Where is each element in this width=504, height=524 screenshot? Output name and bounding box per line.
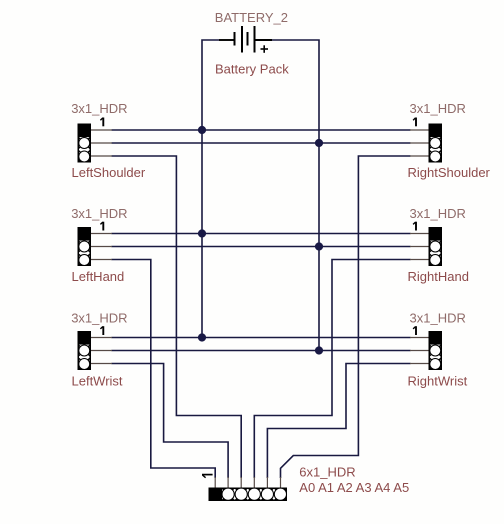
junction node: right rail to shoulder row2 — [315, 139, 323, 147]
svg-text:RightWrist: RightWrist — [408, 373, 468, 388]
connector LeftShoulder body — [78, 124, 92, 163]
pin 6 stub 6x1_HDR — [280, 477, 282, 488]
connector RightWrist body — [429, 331, 443, 370]
pin 2 stub LeftWrist — [91, 350, 112, 352]
pin 3 stub 6x1_HDR — [240, 477, 242, 488]
connector LeftWrist body — [78, 331, 92, 370]
wire hand row2 — [112, 246, 411, 248]
svg-text:3x1_HDR: 3x1_HDR — [410, 206, 466, 221]
wire hand row3 left to A0 drop — [112, 260, 216, 479]
pin 1 stub RightHand — [410, 233, 429, 235]
pin 2 stub RightWrist — [410, 350, 429, 352]
pin 1 stub RightShoulder — [410, 129, 429, 131]
junction node: right rail to hand row2 — [315, 242, 323, 250]
svg-text:A0 A1 A2 A3 A4 A5: A0 A1 A2 A3 A4 A5 — [299, 480, 409, 495]
wire shoulder row1 — [112, 129, 411, 131]
connector LeftHand body — [78, 227, 92, 266]
battery BATTERY_2 — [219, 26, 272, 53]
wire hand row3 right to A3 drop — [254, 260, 410, 479]
connector 6x1_HDR body — [209, 488, 287, 502]
pin number 1 of 6x1_HDR (rotated) — [202, 475, 213, 478]
wire wrist row3 right to A4 drop — [267, 364, 410, 479]
wire shoulder row3 right to A5 drop — [281, 156, 411, 478]
pin 1 stub LeftWrist — [91, 337, 112, 339]
junction dots — [198, 126, 323, 355]
svg-text:3x1_HDR: 3x1_HDR — [71, 206, 127, 221]
svg-text:3x1_HDR: 3x1_HDR — [410, 101, 466, 116]
pin 2 stub RightShoulder — [410, 142, 429, 144]
pin 1 stub RightWrist — [410, 337, 429, 339]
pin 1 stub 6x1_HDR — [214, 477, 216, 488]
wire wrist row3 left to A1 drop — [112, 364, 229, 479]
svg-text:3x1_HDR: 3x1_HDR — [71, 101, 127, 116]
connector RightHand body — [429, 227, 443, 266]
wire wrist row2 — [112, 350, 411, 352]
svg-text:LeftShoulder: LeftShoulder — [72, 165, 146, 180]
svg-text:BATTERY_2: BATTERY_2 — [215, 10, 288, 25]
svg-text:3x1_HDR: 3x1_HDR — [71, 311, 127, 326]
connector RightShoulder body — [429, 124, 443, 163]
pin 2 stub LeftHand — [91, 246, 112, 248]
pin number 1 RightHand — [413, 222, 416, 231]
pin number 1 RightWrist — [413, 326, 416, 335]
svg-text:LeftHand: LeftHand — [72, 269, 125, 284]
wire battery left horizontal — [202, 40, 219, 338]
pin 1 stub LeftShoulder — [91, 129, 112, 131]
pin stubs — [91, 130, 429, 488]
wire shoulder row3 left to A2 drop — [112, 156, 242, 478]
pin 3 stub LeftHand — [91, 259, 112, 261]
pin 2 stub LeftShoulder — [91, 142, 112, 144]
pin 1 stub LeftHand — [91, 233, 112, 235]
wire wrist row1 — [112, 337, 411, 339]
svg-text:LeftWrist: LeftWrist — [72, 373, 123, 388]
pin number 1 LeftHand — [100, 222, 103, 231]
pin 3 stub LeftWrist — [91, 363, 112, 365]
pin 3 stub RightHand — [410, 259, 429, 261]
svg-text:RightShoulder: RightShoulder — [408, 165, 491, 180]
svg-text:Battery Pack: Battery Pack — [215, 61, 289, 76]
pin number 1 LeftShoulder — [100, 118, 103, 127]
junction node: left rail to hand row1 — [198, 229, 206, 237]
pin 4 stub 6x1_HDR — [253, 477, 255, 488]
pin 3 stub RightShoulder — [410, 155, 429, 157]
wire battery right horizontal and right rail — [272, 40, 319, 351]
pin 5 stub 6x1_HDR — [266, 477, 268, 488]
wire hand row1 — [112, 233, 411, 235]
pin 3 stub LeftShoulder — [91, 155, 112, 157]
junction node: left rail to shoulder row1 — [198, 126, 206, 134]
pin number 1 RightShoulder — [413, 118, 416, 127]
pin 2 stub RightHand — [410, 246, 429, 248]
pin 3 stub RightWrist — [410, 363, 429, 365]
svg-text:6x1_HDR: 6x1_HDR — [299, 465, 355, 480]
svg-text:RightHand: RightHand — [408, 269, 469, 284]
pin number 1 LeftWrist — [100, 326, 103, 335]
pin 2 stub 6x1_HDR — [227, 477, 229, 488]
svg-text:3x1_HDR: 3x1_HDR — [410, 311, 466, 326]
junction node: right rail to wrist row2 — [315, 346, 323, 354]
wire shoulder row2 — [112, 142, 411, 144]
junction node: left rail to wrist row1 — [198, 333, 206, 341]
